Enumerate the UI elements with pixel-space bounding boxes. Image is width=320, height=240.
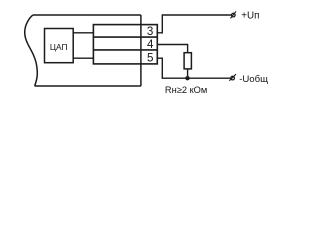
svg-text:5: 5 (147, 51, 153, 64)
wire DAC to terminal 3 (73, 32, 93, 34)
terminal slash -Uобщ (229, 74, 236, 81)
wire pin3 to +Up terminal (157, 15, 231, 33)
resistor R load (Rн) (184, 53, 191, 69)
device block right edge (140, 15, 142, 86)
terminal slash +Uп (231, 11, 237, 18)
junction dot at resistor and rail (185, 76, 189, 80)
svg-text:-Uобщ: -Uобщ (239, 74, 268, 85)
terminal strip outer frame (93, 25, 157, 64)
svg-text:Rн≥2 кОм: Rн≥2 кОм (165, 85, 207, 95)
svg-text:4: 4 (147, 38, 154, 51)
device block bottom edge (35, 85, 141, 87)
svg-text:+Uп: +Uп (241, 10, 259, 21)
device block torn left edge (25, 15, 38, 86)
terminal strip row line 4/5 (93, 49, 157, 51)
terminal circle +Uп (232, 13, 236, 17)
svg-text:3: 3 (147, 25, 153, 38)
terminal circle -Uобщ (231, 76, 235, 80)
wire pin4 to resistor (157, 45, 187, 53)
wire pin5 to -Uобщ rail (157, 58, 230, 78)
terminal strip row line 3/4 (93, 36, 157, 38)
DAC box U1 (ЦАП) (45, 29, 74, 63)
wire resistor bottom to rail junction (187, 69, 189, 78)
wire DAC to terminal 5 (73, 57, 93, 59)
svg-text:ЦАП: ЦАП (50, 42, 68, 52)
device block top edge (33, 14, 141, 16)
